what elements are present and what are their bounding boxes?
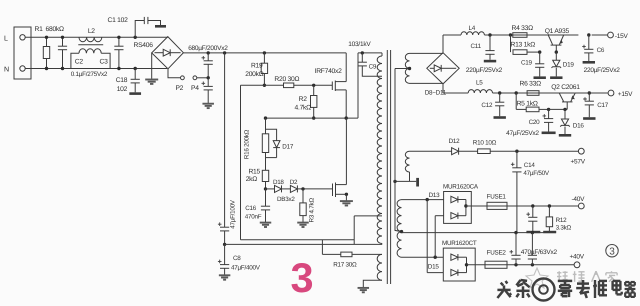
wire anode link A	[427, 200, 443, 273]
svg-text:P4: P4	[191, 85, 199, 92]
ground (arrow) at C16	[260, 223, 272, 227]
ground (bar) at D16	[559, 134, 571, 137]
ground (arrow) at 680uF	[202, 104, 214, 108]
svg-text:R6 33Ω: R6 33Ω	[520, 81, 542, 88]
svg-text:R13 1kΩ: R13 1kΩ	[511, 41, 536, 48]
resistor R2	[295, 84, 317, 120]
svg-text:102: 102	[117, 86, 128, 93]
resistor R1	[35, 26, 65, 70]
capacitor C14	[511, 151, 550, 232]
transformer T1 secondary S1	[405, 53, 443, 83]
watermark logo star	[526, 268, 548, 288]
svg-text:3.3kΩ: 3.3kΩ	[556, 225, 572, 232]
svg-text:R12: R12	[556, 217, 568, 224]
wire bridge minus to ground	[151, 53, 153, 79]
transformer T1 secondary S2	[405, 151, 451, 181]
resistor R6	[520, 81, 542, 96]
svg-text:D19: D19	[563, 62, 575, 69]
transistor Q2 C2061	[551, 84, 580, 110]
svg-text:C14: C14	[524, 162, 536, 169]
common-mode choke L2	[71, 28, 110, 68]
capacitor C20	[529, 109, 554, 131]
svg-text:-15V: -15V	[615, 33, 629, 40]
svg-text:R15: R15	[248, 169, 260, 176]
shield stub	[416, 178, 419, 187]
svg-text:R4 33Ω: R4 33Ω	[512, 25, 534, 32]
wire primary return	[225, 243, 382, 246]
bridge rectifier RS406	[134, 37, 184, 69]
fuse FUSE2	[485, 250, 507, 269]
ground (bar) at C11	[484, 60, 496, 63]
wire anode link B	[435, 216, 443, 258]
svg-text:L5: L5	[476, 80, 483, 87]
svg-text:MUR1620CT: MUR1620CT	[442, 240, 477, 247]
capacitor C12	[481, 91, 504, 116]
svg-text:680µF/200Vx2: 680µF/200Vx2	[188, 45, 228, 52]
svg-text:470nF: 470nF	[245, 213, 262, 220]
connector J1 (L/N mains input)	[4, 27, 31, 79]
wire feedback return	[363, 280, 382, 287]
svg-text:Q1 A935: Q1 A935	[545, 28, 570, 35]
bridge rectifier D8~D11	[425, 53, 460, 97]
wire M1 source rail	[264, 116, 358, 119]
capacitor C6	[582, 33, 605, 61]
capacitor C (-40V) 470uF	[526, 206, 540, 232]
svg-text:N: N	[4, 66, 9, 74]
capacitor C8	[218, 244, 261, 274]
svg-text:MUR1620CA: MUR1620CA	[443, 183, 479, 190]
resistor R4	[512, 25, 534, 37]
svg-text:C20: C20	[529, 119, 541, 126]
resistor R16 and diode D17 parallel	[244, 118, 294, 170]
transistor Q1 A935	[545, 28, 570, 54]
terminal -40V	[572, 196, 586, 209]
ground (arrow) at R3	[297, 223, 309, 227]
label C2/C3 value	[71, 71, 108, 78]
ground (hatched) at U2 source	[340, 201, 353, 205]
ground (hatched) at bridge	[145, 80, 158, 84]
wire HV bus down	[223, 51, 226, 227]
svg-text:D2: D2	[290, 179, 298, 186]
svg-text:D17: D17	[282, 144, 294, 151]
transformer core	[387, 50, 390, 284]
diode D12	[449, 138, 478, 155]
svg-text:R1: R1	[35, 26, 44, 33]
capacitor C18	[116, 67, 140, 93]
transformer T1 secondary S4	[397, 230, 443, 259]
wire -40V rail	[507, 204, 578, 207]
inductor L4	[461, 25, 484, 35]
wire +40V rail	[507, 263, 574, 266]
resistor R15	[246, 169, 269, 191]
wire B+ rail	[183, 52, 346, 54]
capacitor 47uF/100V	[218, 199, 236, 246]
capacitor C2	[58, 36, 83, 71]
wire bridge output to P2	[168, 69, 181, 78]
capacitor C5a 680uF upper	[202, 51, 213, 79]
svg-text:47µF/400V: 47µF/400V	[231, 264, 261, 271]
svg-text:C3: C3	[100, 59, 109, 66]
resistor R3	[300, 187, 316, 222]
svg-text:C16: C16	[245, 205, 257, 212]
resistor R17	[322, 240, 382, 269]
capacitor C(+40V) b	[528, 231, 537, 265]
resistor R19	[245, 51, 267, 87]
dual diode D13 MUR1620CA	[429, 183, 487, 223]
resistor R13	[509, 33, 542, 54]
svg-text:DB3x2: DB3x2	[277, 196, 295, 203]
wire diac row	[266, 188, 333, 190]
resistor R10	[473, 139, 579, 153]
wire bridge to +15 rail	[442, 84, 444, 93]
svg-text:+57V: +57V	[571, 158, 586, 165]
svg-text:D16: D16	[573, 123, 585, 130]
terminal -15V	[578, 32, 628, 40]
ground (bar) at C17	[583, 117, 595, 120]
svg-text:3: 3	[609, 246, 615, 257]
svg-text:R16 200kΩ: R16 200kΩ	[244, 129, 251, 159]
resistor R12	[543, 206, 571, 232]
diac D18	[273, 179, 284, 192]
svg-text:Q2 C2061: Q2 C2061	[551, 84, 580, 91]
ground (bar) at C18	[129, 92, 141, 95]
svg-text:R10 10Ω: R10 10Ω	[473, 139, 497, 146]
resistor R20	[274, 76, 299, 87]
fuse FUSE1	[487, 194, 507, 210]
feedback box left edge	[240, 85, 242, 239]
dual diode D15 MUR1620CT	[428, 240, 485, 281]
ground (bar) at C12	[494, 116, 506, 119]
terminal P4	[191, 76, 208, 92]
resistor R5	[515, 91, 551, 111]
svg-text:200kΩ: 200kΩ	[245, 71, 264, 78]
svg-text:C12: C12	[481, 102, 493, 109]
zener diode D19	[552, 52, 575, 76]
svg-text:R3 4.7kΩ: R3 4.7kΩ	[308, 198, 315, 223]
terminal +15V	[574, 90, 633, 98]
svg-text:4.7kΩ: 4.7kΩ	[295, 105, 312, 112]
svg-text:R17 30Ω: R17 30Ω	[333, 262, 357, 269]
ground (bar) at C6	[583, 61, 595, 64]
feedback box bottom edge	[241, 239, 355, 241]
terminal +40V	[570, 254, 585, 268]
wire primary tap	[354, 216, 382, 245]
wire S2 return	[393, 180, 416, 183]
wire N line	[25, 68, 167, 70]
label 470uF/63Vx2	[521, 249, 558, 256]
transformer T1 feedback winding	[377, 254, 382, 280]
circled number 3	[606, 245, 618, 258]
svg-text:0.1µF/275Vx2: 0.1µF/275Vx2	[71, 71, 108, 78]
svg-text:103/1kV: 103/1kV	[348, 41, 371, 48]
wire bridge to -15 rail	[442, 35, 444, 53]
watermark text weixiurenjia	[557, 271, 617, 282]
wire +15V rail	[443, 92, 574, 94]
svg-text:D13: D13	[429, 192, 441, 199]
capacitor C3	[100, 36, 124, 71]
svg-text:47µF/25Vx2: 47µF/25Vx2	[506, 130, 539, 137]
svg-text:C18: C18	[116, 77, 128, 84]
wire L line	[25, 36, 168, 38]
svg-text:3: 3	[290, 254, 313, 301]
svg-text:C17: C17	[597, 102, 609, 109]
svg-text:R19: R19	[251, 62, 263, 69]
svg-text:47µF/50V: 47µF/50V	[523, 170, 549, 177]
svg-text:D18: D18	[273, 179, 284, 186]
svg-text:IRF740x2: IRF740x2	[315, 68, 343, 75]
svg-text:L2: L2	[88, 28, 95, 35]
zener diode D16	[560, 109, 584, 134]
svg-text:L: L	[4, 34, 8, 42]
svg-text:C8: C8	[233, 255, 241, 262]
svg-text:470µF/63Vx2: 470µF/63Vx2	[521, 249, 558, 256]
transformer T1 primary	[377, 53, 382, 244]
label 220uF/25Vx2 (left)	[466, 67, 503, 74]
svg-text:C1 102: C1 102	[108, 17, 129, 24]
label DB3x2	[277, 196, 295, 203]
capacitor C1	[108, 17, 161, 39]
svg-text:47µF/100V: 47µF/100V	[229, 199, 236, 229]
transformer T1 secondary S3	[397, 198, 444, 232]
svg-text:220µF/25Vx2: 220µF/25Vx2	[466, 67, 503, 74]
label 680uF/200Vx2	[188, 45, 228, 52]
svg-text:L4: L4	[469, 25, 476, 32]
svg-text:220µF/25Vx2: 220µF/25Vx2	[584, 67, 621, 74]
capacitor C17	[583, 91, 609, 117]
svg-text:RS406: RS406	[134, 42, 154, 49]
svg-text:C19: C19	[521, 59, 533, 66]
mosfet U2 IRF740 (lower)	[333, 118, 349, 200]
ground (arrow) at feedback	[358, 288, 370, 292]
wire -15V rail	[443, 34, 578, 36]
svg-text:C11: C11	[471, 43, 482, 50]
ground (bar) at C1	[155, 25, 166, 28]
svg-text:D12: D12	[449, 138, 461, 145]
mosfet U1 IRF740 (upper)	[315, 53, 348, 120]
terminal P2	[175, 76, 184, 92]
svg-text:R20 30Ω: R20 30Ω	[274, 76, 299, 83]
ground (bar) at C19	[534, 76, 546, 79]
svg-text:C2: C2	[75, 59, 84, 66]
wire 0V rail	[402, 232, 557, 234]
svg-text:R5 1kΩ: R5 1kΩ	[517, 101, 538, 108]
ground (bar) at C20	[542, 132, 556, 135]
wire S1 center tap	[395, 67, 411, 70]
watermark text toutiao@gezhuanxiudianqi	[497, 279, 635, 301]
capacitor C16	[245, 189, 270, 222]
terminal +57V	[515, 148, 586, 165]
inductor L5	[468, 80, 492, 93]
wire primary-top net down	[357, 53, 359, 118]
capacitor C(+40V) a	[510, 231, 521, 265]
svg-text:+15V: +15V	[618, 91, 633, 98]
diac D2	[290, 179, 298, 192]
label 220uF/25Vx2 (right)	[584, 67, 621, 74]
wire secondary common down	[395, 69, 402, 232]
svg-text:680kΩ: 680kΩ	[46, 26, 65, 33]
svg-text:P2: P2	[175, 85, 183, 92]
svg-text:C6: C6	[597, 47, 605, 54]
svg-text:+40V: +40V	[570, 254, 585, 261]
capacitor C5b 680uF lower	[202, 78, 213, 103]
capacitor C9	[348, 41, 382, 76]
capacitor C11	[471, 33, 495, 60]
svg-text:-40V: -40V	[572, 196, 586, 203]
page number 3 (pink)	[290, 254, 313, 301]
svg-text:D15: D15	[428, 264, 440, 271]
svg-text:2kΩ: 2kΩ	[246, 176, 258, 183]
capacitor C19	[521, 52, 544, 76]
label 47uF/25Vx2	[506, 130, 539, 137]
wire rail to primary	[358, 52, 382, 54]
svg-text:FUSE1: FUSE1	[487, 194, 507, 201]
wire Q2 base node	[549, 108, 568, 111]
svg-text:FUSE2: FUSE2	[487, 250, 507, 257]
ground (arrow) at C8	[219, 275, 231, 279]
wire gate drive M1	[241, 84, 333, 86]
ground (bar) at D19	[550, 76, 562, 79]
svg-text:C9: C9	[369, 64, 377, 71]
svg-text:R2: R2	[299, 96, 308, 103]
